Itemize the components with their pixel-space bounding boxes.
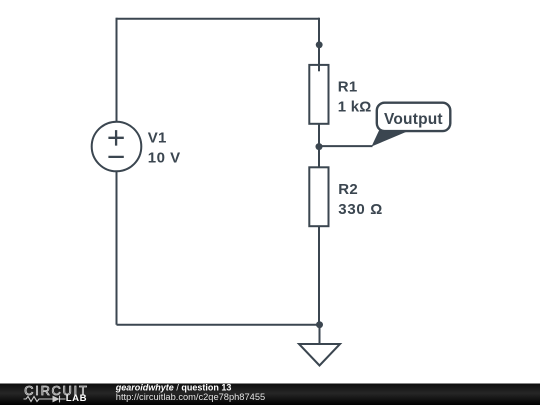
ground: [299, 344, 340, 366]
wire node to Voutput flag: [319, 145, 373, 147]
svg-text:R2: R2: [338, 181, 358, 198]
svg-text:1 kΩ: 1 kΩ: [338, 99, 372, 116]
footer bar: [0, 384, 540, 405]
node junction dot Voutput: [316, 143, 323, 150]
svg-text:LAB: LAB: [66, 393, 87, 404]
wire R2 to bottom: [318, 226, 320, 325]
wire left vertical (top of V1): [116, 18, 118, 122]
wire left vertical (bottom of V1): [116, 171, 118, 324]
svg-text:Voutput: Voutput: [384, 111, 443, 128]
node flag Voutput box: [377, 103, 451, 131]
resistor R1: [309, 65, 328, 124]
wire R1 to node: [318, 124, 320, 168]
svg-text:10 V: 10 V: [148, 149, 181, 166]
wire bottom horizontal: [117, 324, 320, 326]
node flag Voutput tail: [372, 131, 410, 147]
node junction dot bottom: [316, 321, 323, 328]
svg-text:330 Ω: 330 Ω: [338, 201, 383, 218]
wire bottom node to ground: [319, 325, 321, 345]
wire right vertical to R1: [318, 18, 320, 72]
wire top horizontal: [117, 18, 320, 20]
CircuitLab logo waveform: [24, 396, 66, 403]
voltage source V1: [92, 122, 142, 172]
svg-text:R1: R1: [338, 78, 358, 95]
svg-text:http://circuitlab.com/c2qe78ph: http://circuitlab.com/c2qe78ph87455: [116, 392, 265, 402]
svg-text:V1: V1: [148, 130, 167, 147]
resistor R2: [309, 167, 328, 226]
node junction dot upper: [316, 41, 323, 48]
